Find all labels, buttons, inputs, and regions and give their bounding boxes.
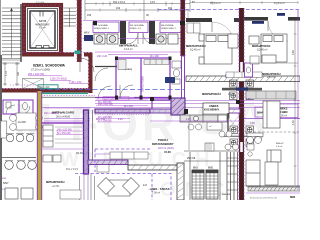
balcony dashed line top bbox=[158, 9, 299, 11]
right side mid couch bbox=[228, 34, 276, 63]
svg-text:WNĘK. 0,9: WNĘK. 0,9 bbox=[130, 27, 142, 30]
bathroom block hatched (x172-185,y98-115) bbox=[171, 98, 185, 115]
label SZYB WINDOWY bbox=[35, 19, 50, 30]
svg-text:150: 150 bbox=[87, 14, 92, 17]
svg-text:7,06 m²: 7,06 m² bbox=[152, 192, 160, 195]
kitchen counter row center (y115-122) bbox=[180, 115, 227, 122]
svg-text:1Q,11 m²: 1Q,11 m² bbox=[210, 1, 221, 5]
svg-text:240 x 120: 240 x 120 bbox=[97, 56, 108, 58]
kitchen stove 2: mirrored vent crosses bbox=[230, 126, 254, 147]
kitchen annex labels center bbox=[203, 103, 229, 130]
svg-text:1,4 m²: 1,4 m² bbox=[276, 145, 282, 148]
svg-text:...OWA - TARAS: ...OWA - TARAS bbox=[148, 187, 170, 191]
svg-text:84 114 62 114 84 38 62 110: 84 114 62 114 84 38 62 110 bbox=[250, 198, 278, 200]
top-right apartment outer wall bbox=[244, 17, 300, 41]
watermark bbox=[14, 92, 270, 201]
WC fixtures right of room bbox=[172, 61, 181, 84]
svg-text:3,08: 3,08 bbox=[250, 123, 255, 125]
stair hall label bbox=[31, 64, 65, 72]
svg-text:90 x 200 (80): 90 x 200 (80) bbox=[98, 102, 112, 104]
purple wall y122-124 bbox=[40, 122, 85, 124]
top-center apartment outer wall with balcony door bbox=[186, 18, 244, 44]
central wall y109-113 bbox=[95, 109, 240, 113]
shaft channel hatch left of party wall bbox=[227, 152, 238, 200]
hatched wall band y76-82 bbox=[186, 76, 300, 82]
shaft door marks bbox=[36, 11, 49, 48]
svg-text:21,0 m²: 21,0 m² bbox=[267, 76, 275, 79]
bed 2 top-right apartment bbox=[249, 34, 287, 62]
staircase treads left bbox=[2, 8, 21, 58]
svg-text:8M4a/P: 8M4a/P bbox=[276, 143, 284, 145]
olive wall vertical bbox=[37, 91, 41, 200]
svg-text:18,5 m² (4120): 18,5 m² (4120) bbox=[158, 147, 174, 150]
svg-text:8iM4a/POKÓJ: 8iM4a/POKÓJ bbox=[252, 43, 271, 48]
terrace dashed boundary bbox=[75, 149, 171, 200]
HALL label bbox=[119, 44, 138, 52]
svg-text:2,05: 2,05 bbox=[186, 119, 191, 121]
W.GARD label bbox=[52, 111, 74, 119]
dashed line right apartment bbox=[245, 131, 300, 133]
mirrored bathrooms: wall + vent crosses bbox=[222, 74, 262, 100]
dark navy lintel blocks bbox=[252, 21, 264, 24]
svg-text:82 x 154 (30): 82 x 154 (30) bbox=[57, 133, 71, 135]
label under band bbox=[202, 91, 235, 96]
dining table + chairs bbox=[98, 178, 140, 196]
svg-text:8M1Pb/POKÓJ: 8M1Pb/POKÓJ bbox=[186, 43, 206, 48]
stair boundary line bbox=[20, 4, 22, 62]
svg-text:12 x 18: 12 x 18 bbox=[36, 2, 45, 5]
room label POKOJ 1 bbox=[186, 43, 206, 52]
hall room purple rect (P.pokoj) bbox=[116, 58, 170, 98]
svg-text:2,05 (17+30x2): 2,05 (17+30x2) bbox=[50, 78, 67, 81]
bottom-right dashed band bbox=[246, 186, 300, 193]
purple line above wardrobe band bbox=[83, 20, 185, 22]
svg-text:240 x 120 (90): 240 x 120 (90) bbox=[57, 129, 72, 131]
svg-text:1,30: 1,30 bbox=[246, 99, 251, 101]
misc small dim texts scattered bbox=[96, 56, 255, 125]
sink circles right kitchen bbox=[249, 134, 262, 140]
dark navy lintel + WKV block top corridor bbox=[84, 35, 93, 41]
svg-text:250 x 120 (90): 250 x 120 (90) bbox=[28, 73, 44, 76]
svg-text:KUCHENNY: KUCHENNY bbox=[204, 108, 219, 112]
svg-text:1Q,11 m²: 1Q,11 m² bbox=[274, 1, 285, 5]
balcony side ticks bbox=[188, 10, 298, 18]
svg-text:240 x 120 (90): 240 x 120 (90) bbox=[98, 104, 113, 106]
svg-text:WKV: WKV bbox=[84, 32, 90, 35]
svg-text:90 x 200: 90 x 200 bbox=[150, 56, 160, 58]
top dimension chains bbox=[85, 0, 190, 20]
left vertical dim lines near staircase bbox=[2, 60, 20, 86]
horizontal maroon wall below shaft to corner bbox=[22, 53, 74, 57]
door arcs left rooms bbox=[6, 105, 30, 114]
svg-text:8M4/8M: 8M4/8M bbox=[222, 194, 230, 196]
vertical wall x83-88 center with X marks bbox=[80, 110, 95, 200]
svg-text:7,45 x 4,52: 7,45 x 4,52 bbox=[69, 81, 82, 84]
svg-text:8M3: 8M3 bbox=[193, 167, 198, 170]
stools circles left row1 bbox=[6, 134, 34, 142]
small WC room right of party wall bbox=[245, 63, 253, 77]
washing machine dark bbox=[165, 77, 175, 83]
svg-text:27,10 m² (1080): 27,10 m² (1080) bbox=[31, 68, 50, 72]
bed 1 top-center apartment bbox=[199, 34, 232, 64]
svg-text:12,6 m²: 12,6 m² bbox=[124, 47, 133, 51]
dark wall piers bbox=[120, 21, 126, 44]
svg-text:8MTPb/HALL: 8MTPb/HALL bbox=[119, 44, 138, 48]
laundry appliances bbox=[94, 34, 178, 44]
svg-text:+2,74=: +2,74= bbox=[52, 185, 60, 188]
svg-text:Pok 2 19,5: Pok 2 19,5 bbox=[66, 168, 79, 171]
X-void square below stairs bbox=[23, 79, 44, 89]
maroon wall bottom of staircase y88.5-92.5 bbox=[2, 89, 93, 93]
svg-text:8M4: 8M4 bbox=[290, 195, 296, 199]
svg-text:8M.8/SZAFA: 8M.8/SZAFA bbox=[161, 24, 174, 27]
svg-text:82 x 154: 82 x 154 bbox=[96, 119, 106, 121]
svg-text:D+/M8: D+/M8 bbox=[18, 120, 26, 124]
svg-text:3,95: 3,95 bbox=[292, 50, 295, 55]
magenta dim rows under label bbox=[28, 76, 88, 84]
diagonal void area bbox=[10, 113, 43, 130]
bottom-right stair/wardrobe blocks bbox=[192, 170, 218, 199]
svg-text:8ZEK1. SCHODOWA: 8ZEK1. SCHODOWA bbox=[33, 64, 65, 68]
extra purple dim text rows left-center bbox=[56, 131, 84, 135]
right-bottom apartment furniture bbox=[246, 150, 281, 186]
svg-text:28,0 m²/4180: 28,0 m²/4180 bbox=[56, 115, 71, 118]
svg-text:±0,00: ±0,00 bbox=[164, 150, 171, 154]
left counter + stools bottom bbox=[2, 157, 36, 159]
svg-text:297,06: 297,06 bbox=[187, 156, 196, 160]
hall bottom walls bbox=[95, 97, 171, 99]
living room label right bbox=[262, 71, 281, 79]
svg-text:WNĘKOWA 1,1: WNĘKOWA 1,1 bbox=[94, 27, 110, 30]
big furniture rect right room bbox=[265, 162, 278, 185]
svg-text:±0,00: ±0,00 bbox=[76, 151, 83, 155]
svg-text:WNĘKOWA 1,1: WNĘKOWA 1,1 bbox=[161, 27, 177, 30]
svg-text:162: 162 bbox=[17, 71, 20, 76]
svg-text:ANEKS: ANEKS bbox=[209, 104, 219, 108]
left wall edge bbox=[0, 55, 2, 200]
small hatch box + chairs top of stair area bbox=[205, 143, 239, 151]
svg-text:8M.7b/SZAFA: 8M.7b/SZAFA bbox=[130, 24, 144, 27]
door arcs hall bottom bbox=[95, 68, 133, 99]
svg-text:m²: m² bbox=[209, 125, 212, 128]
white counter boxes above wall bbox=[226, 72, 262, 78]
elevator shaft outer maroon wall bbox=[24, 5, 61, 54]
svg-text:4,15: 4,15 bbox=[118, 119, 123, 121]
left edge table bbox=[1, 121, 7, 138]
svg-text:1Q,45 m²: 1Q,45 m² bbox=[257, 49, 268, 52]
room label POKOJ 2 bbox=[252, 43, 271, 52]
svg-text:4,15: 4,15 bbox=[150, 1, 155, 4]
POKOJ DWUOSOBOWY label bbox=[152, 137, 174, 150]
blue dashed section line bbox=[40, 89, 185, 91]
wall at x227-229 bbox=[227, 113, 229, 131]
party wall vertical x239 full height bbox=[239, 8, 244, 200]
svg-text:4,9 m²: 4,9 m² bbox=[39, 27, 46, 30]
small fixtures top of bottom-right room bbox=[247, 144, 254, 156]
vertical maroon wall x88.5-92.5 bbox=[89, 57, 93, 94]
door arcs corridor bbox=[127, 33, 154, 44]
coffee table right room bbox=[250, 56, 259, 64]
svg-text:1Q,45 m²: 1Q,45 m² bbox=[190, 49, 201, 52]
svg-text:4,52: 4,52 bbox=[292, 120, 295, 125]
svg-text:8M5: 8M5 bbox=[208, 167, 213, 170]
svg-text:DWUOSOBOWY: DWUOSOBOWY bbox=[152, 142, 174, 146]
left small rooms top bbox=[3, 100, 33, 114]
stairs right of shaft bbox=[64, 8, 77, 27]
vertical wall between hall and top-center apartment bbox=[181, 0, 186, 98]
kitchen counter bottom-center room bbox=[97, 152, 148, 172]
svg-text:162: 162 bbox=[116, 7, 121, 10]
purple F-wall left of kitchen bbox=[150, 100, 170, 111]
wardrobe along olive wall bbox=[43, 125, 53, 147]
dim line + furniture left-center bbox=[42, 148, 84, 150]
building corner walls bottom-center bbox=[128, 163, 184, 200]
svg-text:NNY: NNY bbox=[3, 181, 9, 185]
svg-text:4,10: 4,10 bbox=[5, 71, 8, 76]
circles near kitchen 2 bbox=[219, 131, 263, 143]
central dim band bbox=[40, 101, 300, 108]
purple line below bbox=[83, 38, 185, 40]
shelf lines right of wardrobe bbox=[55, 127, 82, 143]
teal strip below maroon wall bbox=[38, 93, 88, 94]
gray kitchen counter right apartment bbox=[246, 91, 296, 99]
couch right apartment bbox=[263, 101, 280, 128]
svg-text:8MTPb/W.GARD: 8MTPb/W.GARD bbox=[52, 111, 74, 115]
teal highlight box bbox=[38, 85, 58, 89]
horizontal wall y160-165 center-left bbox=[88, 160, 128, 165]
vertical maroon wall right of staircase block bbox=[77, 0, 82, 62]
svg-text:Pok 2 10,2: Pok 2 10,2 bbox=[113, 1, 126, 4]
svg-text:62 x 154: 62 x 154 bbox=[124, 106, 134, 108]
wardrobe boxes row bbox=[93, 22, 182, 33]
junction posts bbox=[93, 21, 240, 114]
purple text rows around central wall bbox=[96, 97, 148, 106]
shaft inner walls + cross bbox=[30, 11, 55, 48]
door arc inside stair exit bbox=[80, 58, 94, 72]
room labels right of olive wall bbox=[46, 179, 65, 188]
right edge dim lines bbox=[297, 10, 299, 190]
